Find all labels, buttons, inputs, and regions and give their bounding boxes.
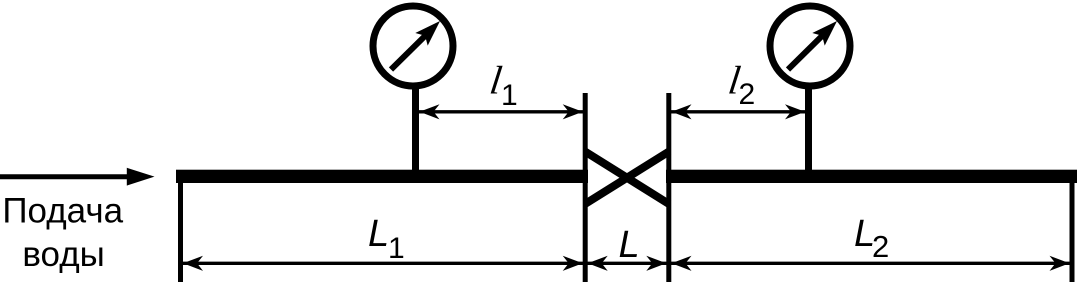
pressure gauge P2 body (770, 6, 850, 86)
label "Подача воды" (2, 192, 123, 275)
svg-text:1: 1 (501, 79, 518, 112)
dimension l2 label (726, 58, 755, 111)
dimension L2 label (854, 213, 889, 264)
dimension L2 arrows (672, 256, 1070, 271)
bottom dimension chain line (181, 262, 1072, 265)
svg-text:L: L (368, 213, 389, 255)
svg-text:Подача: Подача (2, 192, 123, 231)
valve downstream flange line (666, 93, 671, 282)
pressure gauge P2 needle (788, 21, 837, 70)
dimension L arrows (588, 256, 667, 271)
valve bowtie (585, 152, 669, 205)
pressure gauge P1 stem (412, 85, 419, 173)
svg-text:1: 1 (388, 232, 405, 265)
pressure gauge P1 needle (391, 21, 440, 70)
pressure gauge P1 body (373, 6, 453, 86)
svg-text:2: 2 (872, 229, 889, 264)
dimension l2 line (669, 104, 808, 119)
svg-text:2: 2 (739, 78, 756, 111)
left datum extension line (178, 170, 183, 282)
svg-text:воды: воды (22, 235, 104, 274)
dimension l1 line (417, 104, 585, 119)
dimension L1 arrows (183, 256, 583, 271)
pipe segment right (valve to outlet) (666, 170, 1077, 183)
dimension l1 label (487, 58, 517, 112)
valve upstream flange line (583, 93, 588, 282)
svg-text:L: L (619, 224, 640, 266)
supply flow arrow (0, 168, 155, 186)
dimension L1 label (368, 213, 405, 265)
pipe segment left (inlet to valve) (176, 170, 588, 183)
right datum extension line (1070, 170, 1075, 282)
pressure gauge P2 stem (805, 85, 812, 173)
